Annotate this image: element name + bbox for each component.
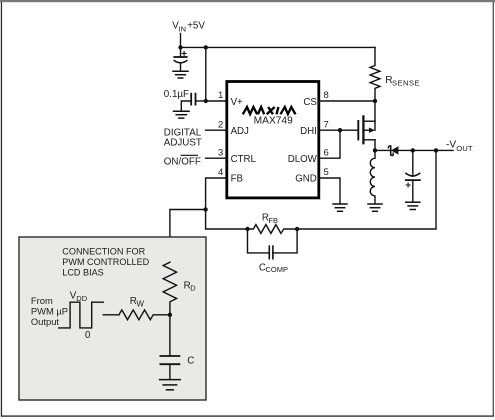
ground C [160,380,181,390]
svg-text:PWM µP: PWM µP [31,305,68,316]
svg-text:CS: CS [303,97,317,108]
wire pin1 stub [206,100,227,102]
svg-text:LCD BIAS: LCD BIAS [62,268,103,278]
wire pin5 GND [319,178,340,204]
svg-text:0.1µF: 0.1µF [164,89,189,100]
junction pin1 [204,99,208,103]
resistor RSENSE [370,47,380,101]
label RW [130,296,145,308]
wire FB node to RD [170,210,206,263]
svg-text:V+: V+ [231,97,243,108]
junction switch node [373,148,377,152]
svg-text:GND: GND [295,174,317,185]
svg-text:ADJ: ADJ [231,126,249,137]
svg-text:CTRL: CTRL [231,154,257,165]
capacitor C [160,315,179,380]
ground 0.1uF [174,111,190,118]
label CONNECTION FOR PWM CONTROLLED LCD BIAS [62,247,149,278]
junction CS node [373,99,377,103]
svg-text:-V: -V [446,140,456,151]
svg-text:8: 8 [324,90,329,101]
node VIN +5V label [172,21,205,34]
svg-text:0: 0 [85,330,91,341]
svg-text:5: 5 [324,167,329,178]
label RSENSE [385,75,420,88]
wire pin8 CS stub [319,100,375,102]
diode D1 Schottky [375,146,453,156]
svg-text:ADJUST: ADJUST [164,137,202,148]
label RD [184,280,197,292]
svg-text:C: C [187,355,194,366]
svg-text:IN: IN [179,25,187,34]
svg-text:2: 2 [218,119,223,130]
svg-text:W: W [137,300,145,309]
capacitor Cin electrolytic [174,47,186,71]
svg-text:DHI: DHI [300,126,317,137]
svg-text:OUT: OUT [456,144,473,153]
capacitor CCOMP [248,229,298,259]
label RFB [262,213,278,225]
svg-text:From: From [31,295,53,306]
svg-text:COMP: COMP [266,265,289,274]
junction VIN-riser [204,45,208,49]
label From PWM uP Output [31,295,68,327]
svg-text:7: 7 [324,119,329,130]
svg-text:SENSE: SENSE [392,79,420,88]
label -VOUT [446,140,473,153]
resistor RFB [248,225,298,234]
resistor RD [163,262,176,315]
capacitor Cout electrolytic [406,150,420,202]
svg-text:FB: FB [268,216,278,225]
inductor L1 [370,150,375,204]
wire pin6 DLOW riser to gate [319,130,340,158]
ground L1 [368,204,382,211]
IC U1 MAXIM logo [243,107,296,114]
wire VIN rail [181,46,376,48]
junction VIN-Cin [178,45,182,49]
ground Cin [173,71,188,78]
junction FB node [203,207,207,211]
PWM connection box [19,237,206,400]
resistor RW [119,310,170,320]
svg-text:+5V: +5V [187,21,205,32]
wire FB node down to RFB [206,210,248,230]
svg-text:CONNECTION FOR: CONNECTION FOR [62,247,145,257]
wire pin2 stub [206,129,227,131]
junction RFB right [295,227,299,231]
wire RFB to -VOUT riser [297,150,436,229]
wire pin4 FB to feedback node [206,178,227,210]
svg-text:3: 3 [218,147,223,158]
ground GND pin [333,204,347,211]
junction gate node [338,128,342,132]
svg-text:1: 1 [218,90,223,101]
svg-text:6: 6 [324,147,329,158]
capacitor 0.1uF [164,89,206,111]
svg-text:ON/OFF: ON/OFF [164,156,201,167]
svg-text:PWM CONTROLLED: PWM CONTROLLED [62,257,149,267]
ground Cout [406,202,420,209]
label DIGITAL ADJUST [164,128,202,149]
wire pin7 DHI to gate [319,129,359,131]
wire riser to pin1 [205,47,207,101]
wire pin3 stub [206,157,227,159]
label CCOMP [259,263,288,275]
junction RW-RD-C node [168,313,172,317]
junction RFB left [245,227,249,231]
svg-text:FB: FB [231,174,243,185]
PWM waveform [59,302,103,328]
transistor Q1 P-channel MOSFET [358,101,375,150]
wire waveform to RW [103,314,119,316]
label ON/OFF [164,155,201,167]
svg-text:Output: Output [31,316,60,327]
node VDD label [70,291,88,304]
svg-text:DLOW: DLOW [288,154,318,165]
svg-text:D: D [190,284,196,293]
svg-text:MAX749: MAX749 [254,116,293,127]
svg-text:4: 4 [218,167,223,178]
IC U1 MAX749 body [227,82,319,198]
wire VIN drop [180,34,182,48]
junction -VOUT node [434,148,438,152]
junction Cout node [411,148,415,152]
